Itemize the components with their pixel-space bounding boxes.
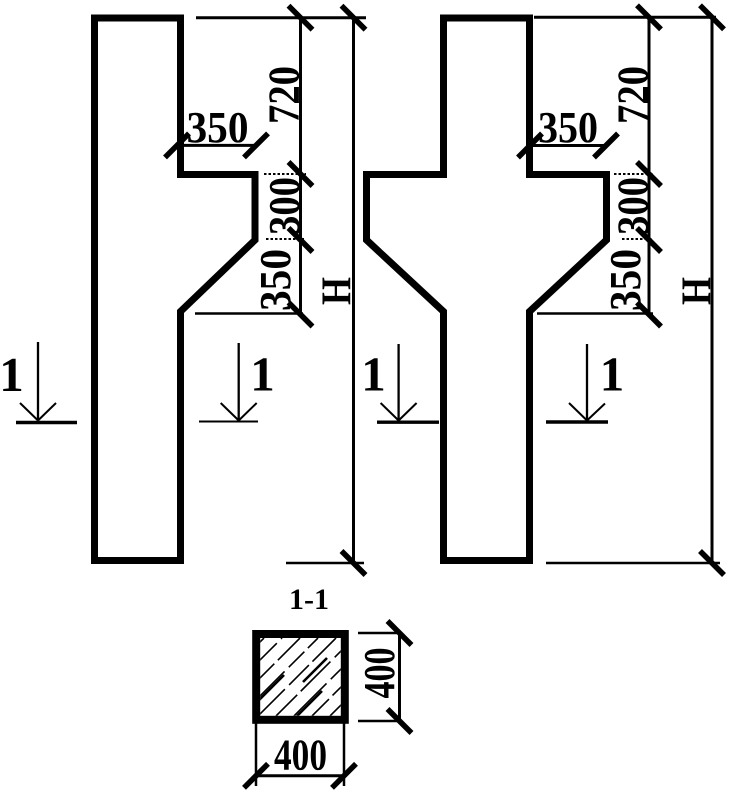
section arrow 1 base line	[16, 421, 77, 424]
section arrow 2 base line	[199, 421, 258, 423]
section arrow 2 head	[221, 403, 257, 421]
section 400 right bottom extension	[358, 720, 400, 723]
svg-text:H: H	[315, 277, 361, 305]
right diagonal-end extension line	[537, 312, 653, 315]
left 720/300/350 dimension line	[299, 18, 302, 315]
tick left H top	[342, 6, 366, 30]
svg-text:350: 350	[251, 249, 300, 311]
section arrow 4 line	[586, 344, 588, 420]
section arrow 3 base line	[377, 421, 439, 424]
tick right corbel top	[637, 162, 661, 186]
tick left 350 right end	[244, 133, 268, 157]
section arrow 4 base line	[546, 420, 608, 423]
tick section right bottom	[388, 709, 412, 733]
tick right H top	[700, 5, 724, 29]
svg-text:1: 1	[600, 347, 625, 402]
svg-text:300: 300	[260, 177, 309, 235]
right corbel top extension line	[614, 173, 654, 175]
left column profile	[95, 18, 256, 561]
left corbel bottom extension line	[266, 238, 304, 240]
tick right diagonal end	[637, 303, 661, 327]
section arrow 3 line	[397, 344, 399, 420]
svg-text:300: 300	[609, 177, 658, 235]
tick section bottom left	[244, 764, 268, 788]
left top extension line	[196, 16, 366, 19]
svg-text:1: 1	[250, 347, 275, 402]
svg-text:350: 350	[601, 249, 650, 311]
svg-text:720: 720	[609, 66, 658, 124]
right corbel bottom extension line	[622, 238, 652, 240]
right bottom extension line	[546, 562, 720, 565]
tick section right top	[388, 621, 412, 645]
tick section bottom right	[332, 764, 356, 788]
svg-text:1: 1	[0, 347, 24, 402]
tick left 350 left end	[165, 133, 189, 157]
section arrow 1 head	[20, 403, 56, 421]
section 400 bottom dimension line	[256, 774, 344, 777]
right column profile	[367, 18, 607, 561]
section 400 right dimension line	[398, 633, 401, 721]
left H dimension line	[352, 18, 355, 563]
left corbel top extension line	[264, 173, 306, 175]
left bottom extension line	[286, 562, 364, 565]
tick left H bottom	[342, 551, 366, 575]
tick left 720 top	[289, 6, 313, 30]
tick left corbel bottom	[289, 228, 313, 252]
tick right 720 top	[637, 5, 661, 29]
right 350 dimension line	[533, 144, 604, 147]
left 350 dimension line	[179, 144, 257, 147]
section 400 bottom right extension	[343, 722, 346, 786]
section hatching	[186, 638, 426, 716]
right top extension line	[534, 16, 716, 19]
tick left diagonal end	[289, 303, 313, 327]
section 400 right top extension	[358, 632, 400, 635]
svg-text:350: 350	[187, 103, 249, 152]
section 400 bottom left extension	[255, 722, 258, 786]
right 720/300/350 dimension line	[648, 17, 651, 314]
svg-text:720: 720	[260, 66, 309, 124]
section arrow 1 line	[37, 342, 39, 420]
section arrow 2 line	[238, 343, 240, 420]
tick right 350 right end	[594, 134, 618, 158]
section arrow 4 head	[569, 403, 605, 421]
tick right corbel bottom	[637, 228, 661, 252]
svg-text:1-1: 1-1	[289, 583, 329, 616]
svg-text:350: 350	[538, 103, 598, 152]
svg-text:1: 1	[361, 347, 386, 402]
left diagonal-end extension line	[195, 312, 303, 315]
svg-text:400: 400	[274, 731, 327, 780]
section square outline	[256, 634, 345, 720]
section arrow 3 head	[381, 403, 417, 421]
tick right 350 left end	[518, 134, 542, 158]
right H dimension line	[711, 17, 714, 563]
svg-text:H: H	[675, 277, 721, 305]
tick left corbel top	[289, 162, 313, 186]
svg-text:400: 400	[355, 648, 404, 699]
tick right H bottom	[700, 551, 724, 575]
